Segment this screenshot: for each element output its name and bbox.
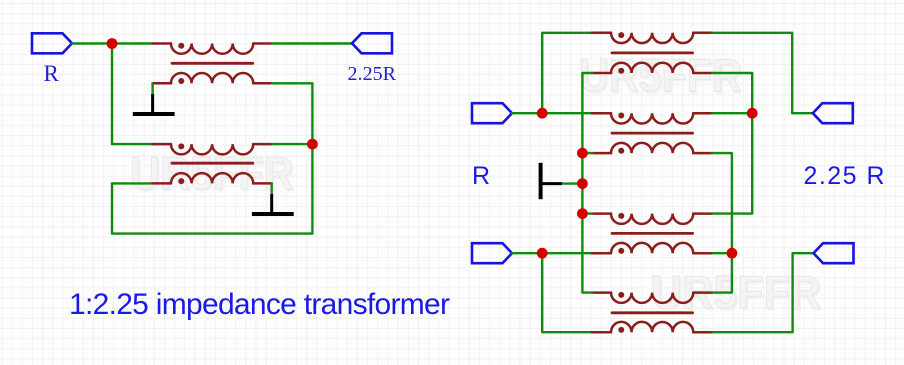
wire right bus T4w2-T6w1 [712,153,732,293]
wire junction D to T5 w2 [542,252,592,254]
T2 primary left pin [153,143,171,146]
junction F (ground tap) [577,178,588,189]
wire ground stub [562,182,582,184]
ground G1 [133,94,175,114]
wire junction C up to T3 w1 [542,33,592,113]
junction A [107,38,118,49]
wire port-R to junction [72,42,112,44]
watermark 2 [579,52,742,99]
wire right bus T3w2-T5w1 [712,73,752,214]
wire bottom loop [112,144,312,234]
junction B [307,139,318,150]
junction H [747,108,758,119]
junction C [537,108,548,119]
junction I [727,248,738,259]
T4 secondary left pin [592,152,611,155]
transformer core 5 [612,232,693,235]
T5 primary right pin [693,212,712,215]
T6 primary right pin [693,291,712,294]
svg-text:1:2.25 impedance transformer: 1:2.25 impedance transformer [69,288,450,321]
svg-text:R: R [472,162,490,190]
T4 secondary right pin [693,152,712,155]
port output bottom [814,243,854,263]
svg-text:2.25R: 2.25R [348,63,397,85]
port 2.25R [352,33,392,53]
wire T1 sec to ground 1 [151,83,153,94]
T5 secondary left pin [592,252,611,255]
wire to T2 primary [112,143,153,145]
wire T3w1 to port out top [712,33,813,113]
wire T5w2 to junction I [712,252,732,254]
ground G2 [252,194,294,214]
ground G3 [541,163,562,199]
T1 core [172,62,253,65]
svg-text:2.25 R: 2.25 R [804,162,885,190]
wire junction A down to T2 [111,44,113,145]
T4 primary right pin [693,112,712,115]
wire T1 to port 2.25R [272,42,352,44]
T5 primary winding [611,213,693,224]
T4 primary winding [611,113,693,124]
T6 secondary winding [611,322,693,333]
wire T6w2 to port out bottom [712,253,813,332]
transformer T2 secondary winding [171,173,253,184]
T3 secondary winding [611,63,693,74]
T3 secondary left pin [592,72,611,75]
junction D [537,248,548,259]
T2 core [172,162,253,165]
wire left bus T3w2-T6w1 [582,73,592,293]
wire junction to T1 pin [112,42,153,44]
transformer core 6 [612,311,693,314]
transformer T2 primary winding [171,143,253,154]
wire T2 primary to junction B [272,143,313,145]
T1 secondary right pin [253,82,272,85]
T4 primary left pin [592,112,611,115]
T5 secondary winding [611,243,693,254]
T3 primary winding [611,32,693,43]
transformer core 3 [612,52,693,55]
wire port to junction D [512,252,542,254]
T1 primary right pin [253,42,272,45]
T6 secondary left pin [592,331,611,334]
T5 secondary right pin [693,252,712,255]
junction G [577,208,588,219]
wire junction C to T4 w1 [542,112,592,114]
port output top [813,103,853,123]
wire T4w1 to junction H [712,112,752,114]
T3 primary left pin [592,32,611,35]
wire to T5 w1 [582,212,592,214]
T2 primary right pin [253,143,272,146]
T3 primary right pin [693,32,712,35]
wire junction D down to T6 w2 [542,253,592,332]
wire T2 sec to ground 2 [271,183,273,194]
port R (left circuit) [32,33,72,53]
T1 primary left pin [153,42,171,45]
svg-text:R: R [44,61,60,86]
transformer T1 secondary winding [171,73,253,84]
port input bottom (right circuit) [472,243,512,263]
wire to T2 secondary [112,182,153,184]
T6 primary left pin [592,291,611,294]
T2 secondary left pin [153,182,171,185]
T4 secondary winding [611,143,693,154]
watermark 1 [130,150,294,197]
T6 secondary right pin [693,331,712,334]
transformer core 4 [612,132,693,135]
T2 secondary right pin [253,182,272,185]
wire port to junction C [512,112,542,114]
wire to T4 w2 [582,152,592,154]
transformer T1 primary winding [171,43,253,54]
T3 secondary right pin [693,72,712,75]
T6 primary winding [611,292,693,303]
junction E [577,148,588,159]
T1 secondary left pin [153,82,171,85]
watermark 3 [651,269,821,316]
T5 primary left pin [592,212,611,215]
port input top (right circuit) [472,103,512,123]
wire T1 sec to junction B [272,83,313,144]
